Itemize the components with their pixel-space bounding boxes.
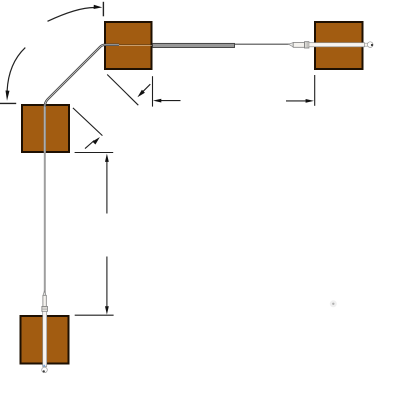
vertical dimension arrow down: [105, 257, 109, 315]
wire main tube (horizontal stub into top block, 45deg diagonal bend): [45, 45, 119, 107]
tick at end of top arc: [102, 2, 104, 16]
block bottom (wood block at bottom left): [21, 316, 69, 364]
blue mark on rod below bottom block: [43, 365, 45, 367]
wire end ball right: [365, 42, 374, 48]
horizontal dimension arrow right (points right): [286, 99, 314, 103]
wire end ball bottom: [42, 367, 48, 373]
extension line below right block left edge: [314, 75, 316, 106]
wire faint line through top block: [117, 45, 153, 46]
fitting right barrel: [293, 43, 304, 48]
diagonal dimension arrow lower (points up-right): [85, 137, 100, 149]
horizontal dimension arrow left (points left): [153, 99, 181, 103]
extension line right of bottom block top edge: [75, 314, 114, 316]
vertical dimension arrow up: [105, 154, 109, 214]
arrowhead of left arc: [6, 91, 10, 101]
extension line below top block right edge: [152, 76, 154, 106]
block right (wood block at top right): [315, 22, 363, 69]
fitting bottom taper: [43, 291, 46, 295]
wire inner cable (thin wire to right fitting): [235, 43, 294, 45]
block top (wood block at top center): [105, 22, 152, 69]
fitting right taper: [289, 43, 294, 47]
wire rod through bottom block: [43, 311, 47, 366]
fitting bottom collar: [42, 306, 48, 311]
extension line from top block lower-left corner (perpendicular to wire): [107, 75, 138, 106]
extension line from left block upper-right corner (perpendicular to wire): [73, 108, 103, 136]
block left (wood block at middle left): [22, 105, 69, 152]
angle arc top: [48, 7, 96, 21]
angle arc left: [7, 48, 25, 91]
fitting right collar: [305, 42, 309, 48]
arrowhead of top arc: [94, 5, 103, 9]
faint dot artifact lower right: [330, 300, 337, 307]
wire rod through right block: [309, 43, 365, 47]
wire housing (thick gray conduit right of top block): [153, 43, 235, 47]
diagonal dimension arrow upper (points down-left): [137, 84, 150, 97]
wire segment through left block: [44, 105, 46, 153]
extension line right of left block bottom edge: [75, 152, 114, 154]
fitting bottom barrel: [43, 295, 46, 306]
tick at end of left arc: [0, 102, 16, 104]
wire long vertical run (light gray cable below left block): [44, 106, 46, 296]
